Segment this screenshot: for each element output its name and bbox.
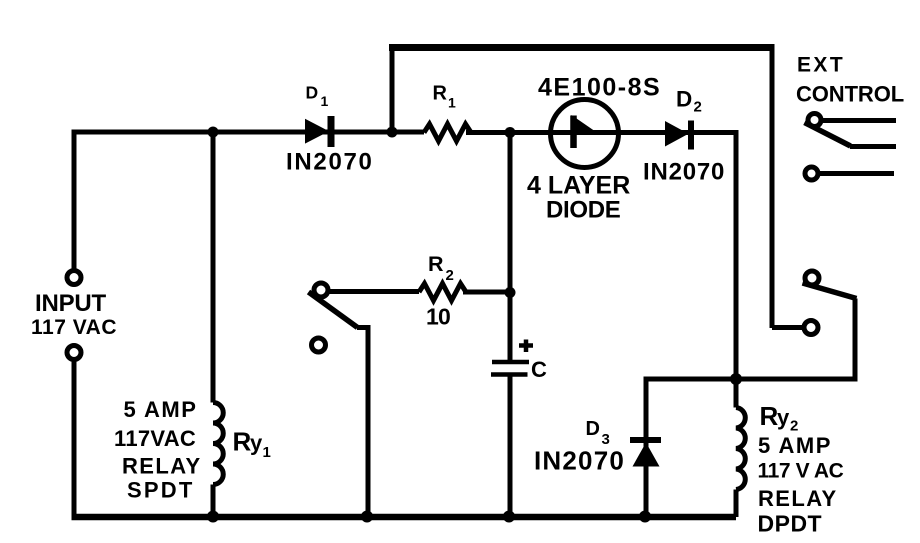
label R1 [433,83,457,111]
wire: switch pole to R2 [328,289,419,294]
input terminal upper circle [67,271,81,285]
svg-text:IN2070: IN2070 [286,149,374,176]
svg-text:RELAY: RELAY [758,486,838,511]
svg-text:2: 2 [694,99,702,116]
svg-text:117 VAC: 117 VAC [31,316,117,339]
label 4 LAYER DIODE [527,172,630,224]
svg-text:SPDT: SPDT [127,478,194,503]
wire: main rail right section, corner down to Ry2/D3 junction [466,133,736,380]
diode D2 [665,121,691,150]
svg-text:y: y [777,405,790,430]
svg-text:R: R [760,401,779,431]
svg-text:DIODE: DIODE [546,197,621,224]
label D3 [586,418,610,448]
wire: capacitor branch vertical lower [508,377,513,518]
wire: top feedback wire vertical right down to relay contact [770,46,775,329]
manual switch pole circle [314,283,328,297]
svg-text:2: 2 [790,418,798,435]
svg-text:y: y [250,431,263,456]
label Ry1 [233,427,271,462]
resistor R2 [419,284,466,301]
wire: ext control middle lead [850,144,896,149]
svg-text:4 LAYER: 4 LAYER [527,172,630,200]
label 5 AMP 117VAC RELAY SPDT [114,397,202,503]
switch blade relay contact [803,283,857,299]
svg-text:IN2070: IN2070 [643,159,725,186]
relay coil Ry2 [736,408,745,490]
wire: R2 to capacitor branch [463,290,511,295]
svg-text:1: 1 [321,93,329,109]
svg-text:2: 2 [446,267,454,284]
wire: ext control lower lead [819,171,895,176]
switch blade ext control [805,123,851,147]
svg-text:R: R [433,83,448,105]
label INPUT 117 VAC [31,290,117,339]
svg-text:1: 1 [263,444,271,461]
svg-text:1: 1 [448,95,456,111]
label EXT CONTROL [796,54,904,107]
node: bus junction capacitor [503,511,515,523]
relay Ry2 contact lower circle [804,321,818,335]
svg-text:10: 10 [426,304,450,330]
svg-text:EXT: EXT [797,54,845,77]
wire: top feedback wire vertical left [390,46,395,133]
ext control terminal lower circle [805,167,818,180]
wire: D3 to bottom bus [644,443,649,517]
label D2 [676,87,702,116]
svg-text:R: R [233,427,252,457]
node: junction main rail / top feedback wire [387,127,398,138]
label + polarity [519,340,533,353]
wire: bottom bus [72,514,737,521]
label Ry2 [760,401,799,435]
svg-text:117 V AC: 117 V AC [758,460,844,483]
label 5 AMP 117V AC RELAY DPDT [758,433,844,537]
svg-text:RELAY: RELAY [122,454,202,479]
svg-text:5 AMP: 5 AMP [124,397,198,422]
relay Ry2 contact upper circle [805,271,819,285]
node: bus junction Ry1 [207,511,219,523]
ext control terminal upper circle [808,114,821,127]
manual switch open contact circle [312,338,326,352]
wire: left vertical from top rail to input terminal [74,132,424,271]
svg-text:DPDT: DPDT [758,511,823,537]
wire: Ry1 branch vertical lower [211,485,216,518]
node: junction D2 output / Ry2 / D3 [730,373,742,385]
svg-text:5 AMP: 5 AMP [758,433,832,458]
wire: switch arm to bottom bus [357,328,368,518]
label R2 [428,252,454,284]
wire: left vertical to bottom bus [72,360,77,518]
svg-text:4E100-8S: 4E100-8S [538,74,661,102]
wire: top feedback wire horizontal [389,44,775,51]
svg-text:D: D [676,87,692,112]
svg-text:INPUT: INPUT [35,290,107,317]
node: bus junction switch arm [361,511,373,523]
relay coil Ry1 [213,403,223,485]
diode D3 [630,440,661,467]
label D1 [306,83,329,110]
switch blade manual [309,292,358,328]
input terminal lower circle [67,346,81,360]
svg-text:117VAC: 117VAC [114,426,196,451]
capacitor C [491,362,529,375]
wire: Ry1 branch vertical upper [211,132,216,403]
svg-text:C: C [531,357,547,382]
svg-text:CONTROL: CONTROL [796,82,904,107]
4-layer diode 4E100-8S [551,100,619,168]
node: junction main rail / Ry1 branch [208,127,219,138]
diode D1 [305,116,331,147]
svg-text:R: R [428,252,444,276]
wire: D3 top horizontal to relay blade [646,299,855,438]
wire: Ry2 branch vertical lower [734,490,739,518]
svg-text:D: D [306,83,319,103]
resistor R1 [424,124,471,141]
wire: Ry2 branch vertical upper [734,379,739,408]
wire: relay contact lower lead [772,325,804,330]
wire: ext control upper lead [822,118,897,123]
node: junction R2 / capacitor branch [505,287,516,298]
svg-text:IN2070: IN2070 [534,446,625,476]
wire: capacitor branch vertical upper [508,133,513,361]
node: junction main rail / capacitor branch [505,127,516,138]
svg-text:D: D [586,418,600,440]
node: bus junction D3 [639,511,651,523]
